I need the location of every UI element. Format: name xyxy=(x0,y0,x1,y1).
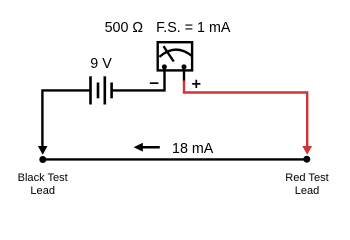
meter terminal minus pin xyxy=(162,64,167,69)
meter needle xyxy=(164,46,174,61)
battery B1 plate short 2 xyxy=(110,83,113,99)
svg-text:F.S. = 1 mA: F.S. = 1 mA xyxy=(156,20,231,36)
svg-text:9 V: 9 V xyxy=(90,56,112,72)
meter terminal plus pin xyxy=(182,64,187,69)
svg-text:Black Test: Black Test xyxy=(18,172,68,184)
black arrowhead down xyxy=(38,146,48,155)
meter scale arc xyxy=(159,50,192,57)
meter U1 box xyxy=(158,42,192,70)
svg-text:18 mA: 18 mA xyxy=(172,141,214,157)
red arrowhead down xyxy=(302,146,312,155)
wire bottom rail xyxy=(43,158,307,160)
battery B1 plate short 1 xyxy=(97,83,100,99)
node black test lead xyxy=(39,156,46,163)
svg-text:Lead: Lead xyxy=(295,185,320,197)
svg-text:Red Test: Red Test xyxy=(285,172,328,184)
battery B1 plate long 2 xyxy=(104,76,107,104)
svg-text:500 Ω: 500 Ω xyxy=(105,20,144,36)
label minus xyxy=(150,82,159,84)
wire black stub below plus terminal xyxy=(183,67,185,81)
wire red from plus terminal to red node xyxy=(184,81,307,147)
label plus xyxy=(192,80,200,88)
node red test lead xyxy=(303,156,310,163)
current arrow 18 mA xyxy=(134,143,160,152)
wire battery left lead and drop to black lead node xyxy=(42,90,90,146)
svg-text:Lead: Lead xyxy=(30,185,55,197)
battery B1 plate long 1 xyxy=(89,76,92,104)
wire battery to meter minus terminal xyxy=(112,67,165,90)
